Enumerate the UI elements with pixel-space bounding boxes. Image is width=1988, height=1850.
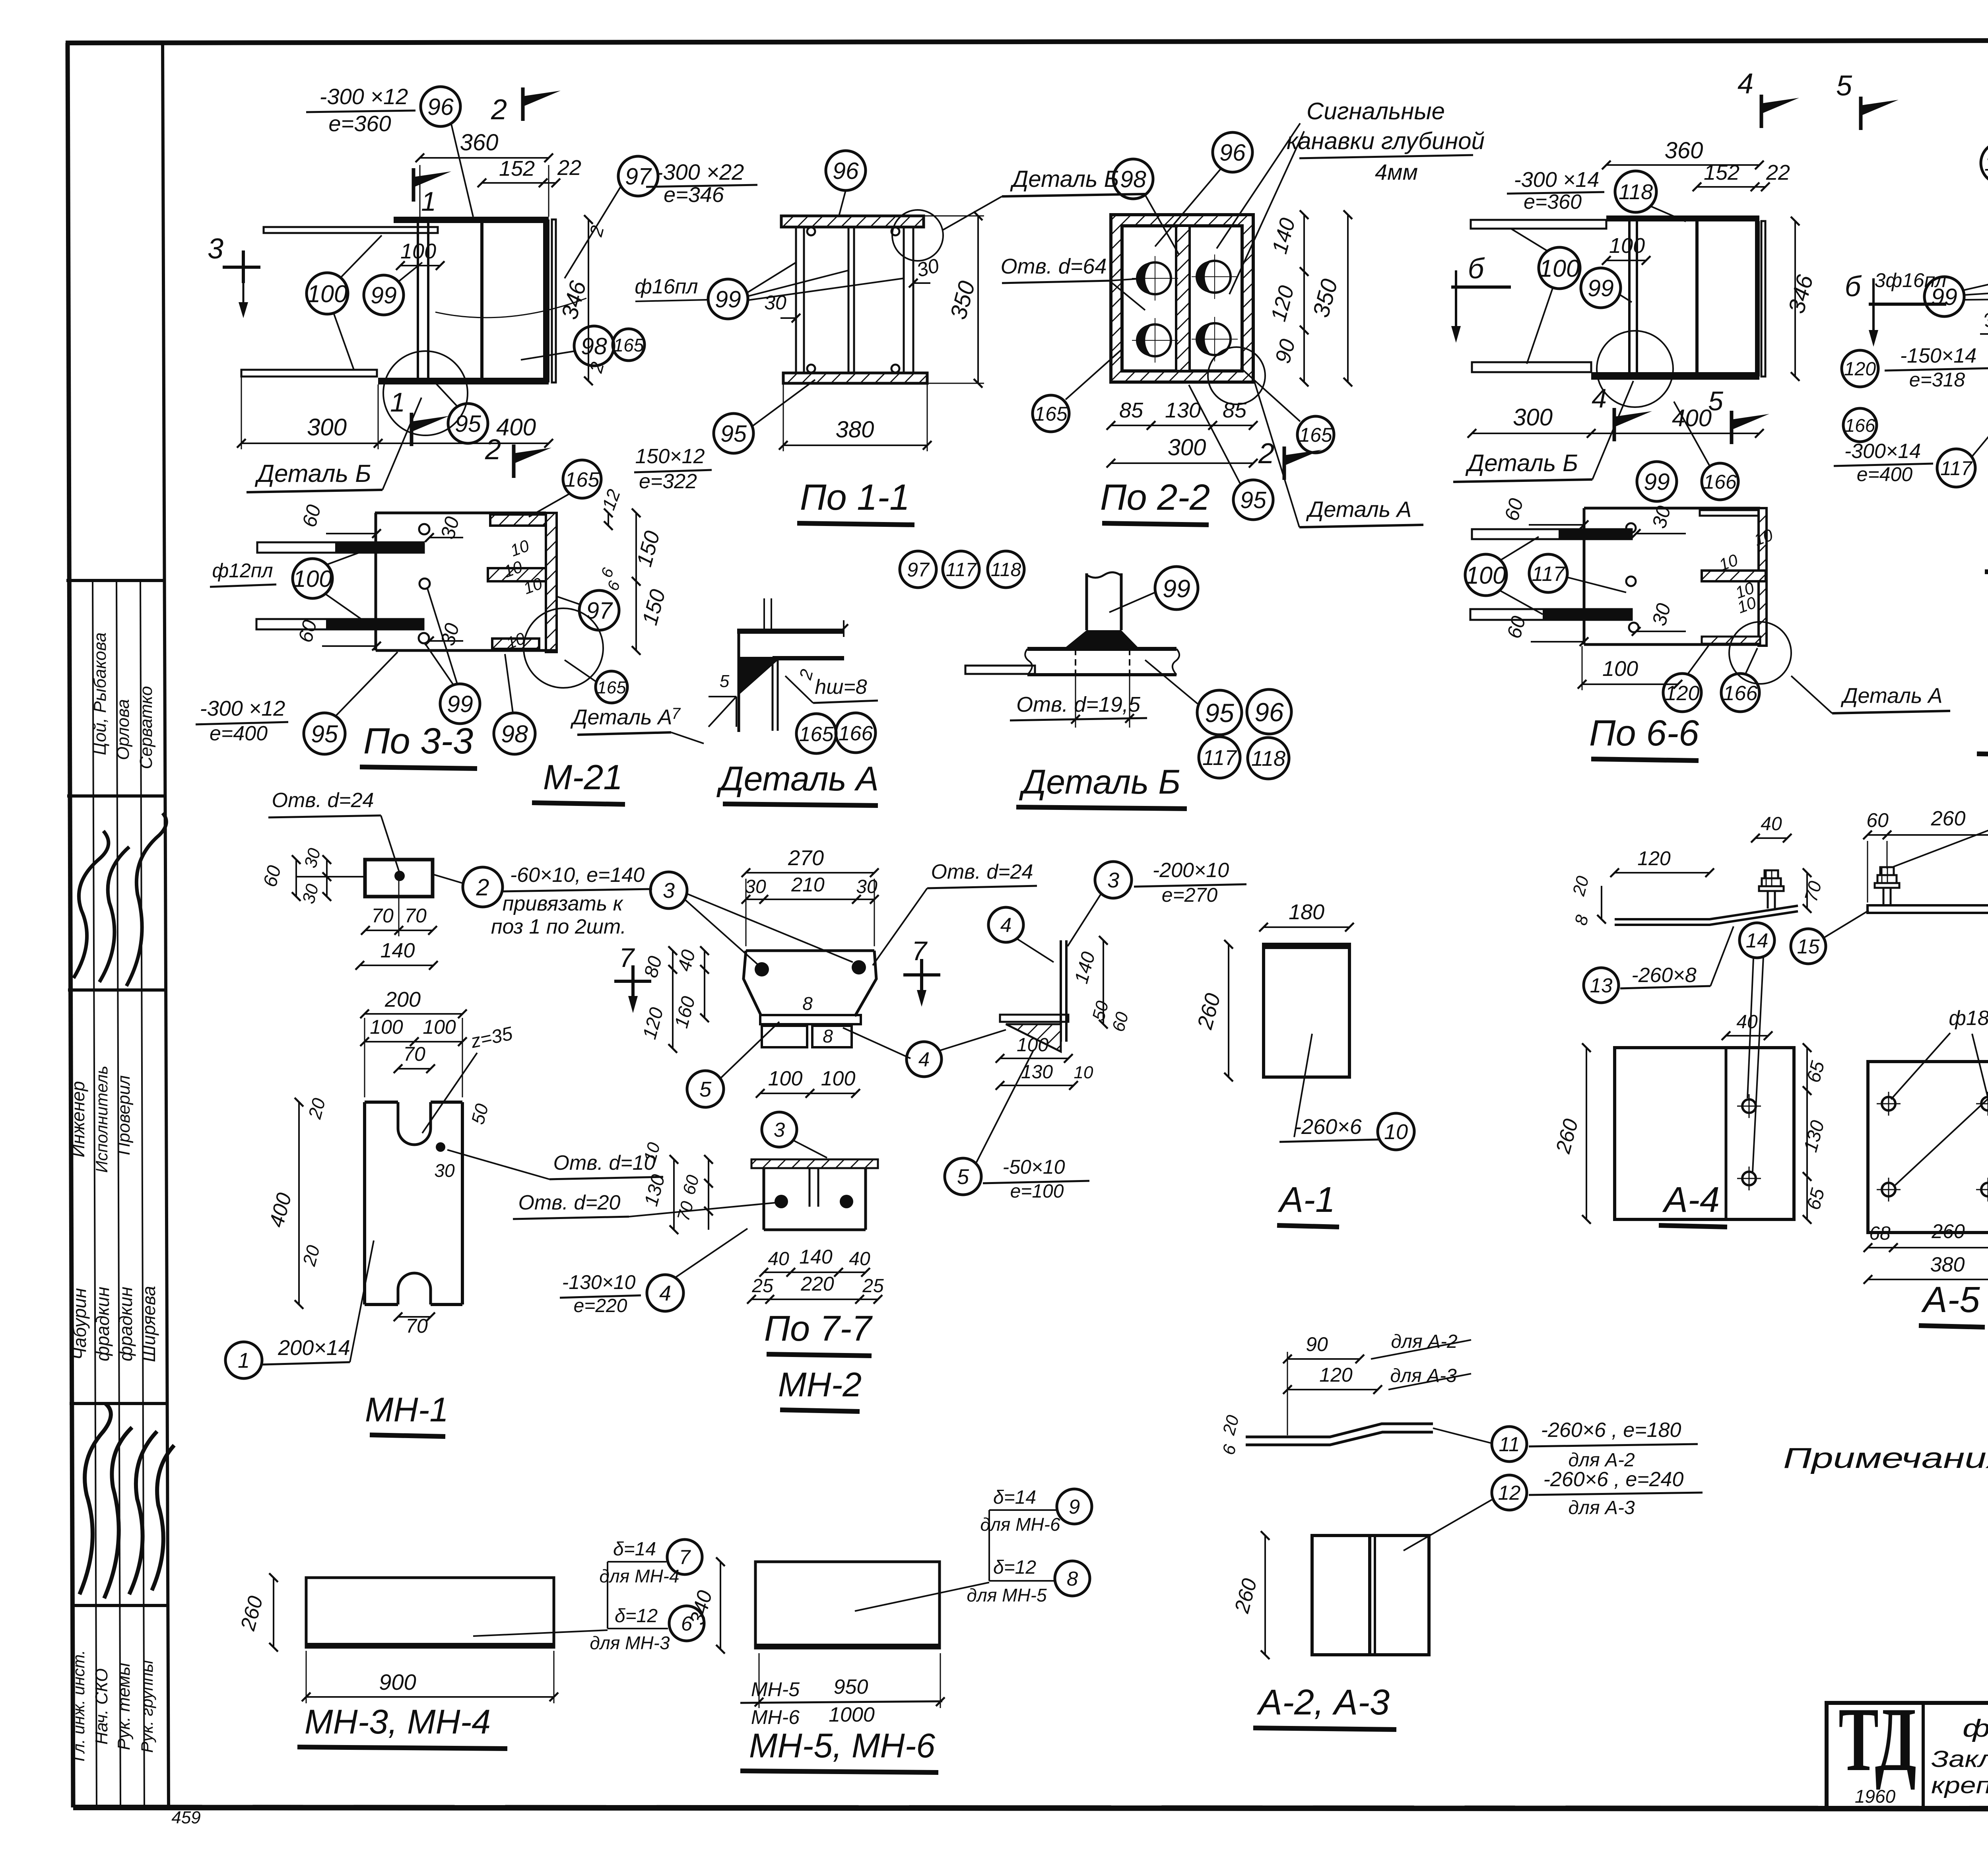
svg-text:10: 10 [1074, 1063, 1093, 1082]
svg-text:Отв. d=19,5: Отв. d=19,5 [1016, 693, 1141, 716]
svg-text:60: 60 [1866, 809, 1889, 831]
svg-text:95: 95 [1205, 698, 1234, 728]
svg-text:Орлова: Орлова [113, 699, 133, 760]
Po 1-1: right stud pair [903, 227, 905, 373]
svg-text:3: 3 [1107, 868, 1119, 892]
svg-text:для МН-3: для МН-3 [590, 1633, 670, 1653]
svg-text:5: 5 [957, 1165, 969, 1189]
svg-text:По 3-3: По 3-3 [363, 721, 473, 761]
svg-text:97: 97 [625, 163, 652, 190]
Po 3-3: detail circle [524, 608, 603, 688]
svg-text:165: 165 [1299, 424, 1332, 446]
svg-text:166: 166 [1703, 471, 1737, 493]
M-22 plan: corner detail circle [1597, 331, 1673, 407]
Po 7-7 inner rib [809, 1168, 811, 1207]
title strip column lines [93, 580, 97, 1807]
Po 3-3: anchor bar 2 [256, 619, 423, 629]
svg-text:Отв. d=24: Отв. d=24 [931, 860, 1033, 883]
svg-text:100: 100 [1466, 562, 1506, 589]
M-21 dim 360 [420, 157, 549, 159]
callout 165 top with 150x12 e=322 [563, 460, 601, 498]
svg-text:96: 96 [427, 94, 454, 120]
svg-text:100: 100 [370, 1016, 403, 1038]
section mark [410, 413, 414, 446]
callout 13 with label -260x8 [1584, 968, 1619, 1003]
M-22 plan: bolt bar [1629, 219, 1637, 379]
M-22 dim 346 [1794, 221, 1796, 377]
callout 95 [714, 413, 753, 453]
svg-text:привязать к: привязать к [503, 892, 624, 915]
M-21 plan: right plate 300x22 [543, 219, 549, 382]
svg-text:900: 900 [379, 1669, 416, 1695]
section mark [412, 168, 415, 202]
callout 166 [1721, 674, 1759, 712]
callout 98 [1113, 159, 1153, 199]
svg-text:e=400: e=400 [1857, 463, 1913, 485]
Po 6-6: left edge [1583, 508, 1586, 644]
Po 1-1: bolt heads [807, 227, 815, 235]
svg-text:фермы пролетом 30м.: фермы пролетом 30м. [1963, 1715, 1988, 1742]
title block frame [1827, 1703, 1988, 1808]
svg-text:30: 30 [745, 876, 766, 897]
Po 3-3: anchor bar 1 [257, 542, 424, 553]
title strip inner border [163, 44, 169, 1807]
M-22 plan: top plate [1606, 215, 1759, 221]
A-2/A-3 bent plate elevation [1246, 1424, 1433, 1437]
callout 100 [293, 559, 332, 598]
svg-text:11: 11 [1499, 1433, 1520, 1456]
svg-text:-60×10, e=140: -60×10, e=140 [510, 864, 645, 887]
A-4 bolt on plate [1767, 890, 1769, 908]
M-22 plan: top anchor [1471, 220, 1606, 229]
Po 3-3: bottom line [376, 649, 558, 652]
Po 6-6: top line [1584, 507, 1760, 510]
svg-text:7: 7 [679, 1546, 691, 1569]
callout 118 [1615, 171, 1656, 212]
callout 100 [307, 273, 348, 314]
A-5 bottom dims 60 260 60 380 [1868, 1247, 1988, 1248]
callout 165 right [1297, 416, 1334, 453]
callout 96 [1213, 132, 1252, 172]
svg-text:99: 99 [371, 282, 397, 309]
svg-text:А-1: А-1 [1277, 1180, 1335, 1220]
svg-text:165: 165 [565, 468, 600, 491]
Po 6-6: right web hatched [1759, 508, 1767, 646]
Po 6-6: bottom right notch hatched [1702, 637, 1760, 644]
svg-text:8: 8 [823, 1026, 833, 1046]
svg-text:-50×10: -50×10 [1002, 1156, 1065, 1178]
A-4 plan holes [1742, 1099, 1756, 1113]
svg-text:7: 7 [672, 705, 681, 722]
svg-text:25: 25 [751, 1275, 773, 1297]
callout 165 left [1033, 395, 1069, 432]
MN-1 plate outline [365, 1101, 398, 1104]
callout 3 with label -200x10 e=270 [1095, 862, 1132, 898]
svg-text:90: 90 [1306, 1333, 1328, 1355]
svg-text:для МН-6: для МН-6 [980, 1514, 1060, 1535]
MN-5/6 dim 340 [720, 1562, 721, 1649]
svg-text:Деталь А: Деталь А [1306, 497, 1411, 522]
svg-text:70: 70 [406, 1315, 428, 1337]
M-21 plan: bottom plate [378, 378, 549, 384]
svg-text:166: 166 [1723, 682, 1758, 705]
item 2 plate [365, 860, 433, 897]
svg-text:для А-3: для А-3 [1568, 1497, 1635, 1518]
Po 3-3: bolt circles [419, 524, 429, 534]
svg-text:99: 99 [1931, 284, 1957, 310]
Po 3-3 callouts 97 117 118 row [900, 551, 936, 588]
svg-text:95: 95 [311, 720, 338, 747]
svg-text:По 7-7: По 7-7 [764, 1309, 873, 1349]
Po 3-3: left edge [375, 513, 377, 650]
Po 2-2: holes with crescents [1139, 262, 1171, 294]
callout 118 [1981, 142, 1988, 184]
svg-text:950: 950 [834, 1675, 868, 1699]
svg-text:98: 98 [581, 333, 607, 359]
M-22 dims 152 22 [1697, 186, 1765, 188]
svg-text:-200×10: -200×10 [1153, 859, 1229, 882]
svg-text:δ=14: δ=14 [613, 1539, 656, 1560]
svg-text:δ=12: δ=12 [615, 1605, 658, 1627]
svg-text:130: 130 [1165, 398, 1201, 422]
svg-text:Отв. d=10: Отв. d=10 [553, 1151, 656, 1174]
anchor assembly A-5 bolts [1883, 887, 1885, 905]
svg-text:117: 117 [946, 559, 977, 580]
svg-text:200×14: 200×14 [278, 1336, 350, 1360]
svg-text:100: 100 [768, 1067, 803, 1090]
callout 3 MN-2 [650, 872, 687, 908]
svg-text:152: 152 [499, 157, 535, 181]
svg-text:А-5: А-5 [1921, 1279, 1980, 1320]
svg-text:Чабурин: Чабурин [69, 1288, 90, 1360]
Detail B: vertical rod [1085, 573, 1088, 630]
svg-text:1000: 1000 [829, 1703, 875, 1726]
Po 1-1: bottom flange hatched [783, 373, 927, 383]
callout 4 bracket top [988, 907, 1023, 942]
svg-text:3: 3 [663, 879, 675, 903]
svg-text:5: 5 [1836, 70, 1852, 102]
svg-text:Гл. инж. инст.: Гл. инж. инст. [69, 1650, 88, 1761]
Po 2-2 right dims 140 120 90 350 [1303, 215, 1305, 382]
svg-text:Закладные элементы М-21, М-: Закладные элементы М-21, М-22 и [1931, 1746, 1988, 1772]
Po 6-6: anchor bar 2 [1470, 609, 1632, 620]
svg-text:100: 100 [400, 239, 436, 263]
M-21 plan: inner arc [435, 298, 586, 318]
svg-text:14: 14 [1746, 929, 1769, 952]
callout 99 [364, 275, 404, 315]
callout 99 [708, 279, 748, 319]
callout 166 [836, 713, 876, 753]
svg-text:300: 300 [1513, 404, 1553, 431]
callout 100 [1539, 247, 1580, 289]
svg-text:85: 85 [1119, 398, 1143, 422]
MN-1 hole [436, 1142, 445, 1152]
svg-text:100: 100 [1602, 657, 1638, 681]
svg-text:13: 13 [1590, 974, 1613, 997]
svg-text:2: 2 [476, 874, 489, 901]
svg-text:100: 100 [423, 1016, 456, 1038]
MN-3/4 dim 260 [273, 1578, 274, 1647]
svg-text:100: 100 [1609, 234, 1645, 258]
svg-text:ф16пл: ф16пл [635, 275, 698, 298]
callout 120 [1663, 674, 1701, 712]
Po 6-6: detail circle [1729, 622, 1791, 684]
Po 3-3: right web hatched [546, 513, 557, 652]
Po 7-7 channel body [763, 1168, 765, 1230]
item 2 hole [394, 871, 405, 881]
svg-text:117: 117 [1940, 457, 1973, 479]
MN-5 MN-6 plate [755, 1562, 940, 1648]
svg-text:400: 400 [496, 414, 536, 441]
A-1 dim 180 [1264, 926, 1349, 928]
svg-text:300: 300 [1168, 435, 1206, 460]
svg-text:300: 300 [307, 414, 347, 441]
M-21 dims 300 400 bottom [241, 443, 549, 444]
svg-text:95: 95 [720, 421, 747, 447]
svg-text:99: 99 [715, 286, 741, 313]
svg-text:22: 22 [1766, 161, 1790, 184]
svg-text:1: 1 [390, 387, 405, 417]
svg-text:крепежные детали МН-1÷МН-6,: крепежные детали МН-1÷МН-6, А-1÷А-6. [1931, 1772, 1988, 1798]
svg-text:Инженер: Инженер [68, 1081, 88, 1157]
svg-text:165: 165 [799, 723, 834, 746]
svg-text:4: 4 [659, 1281, 671, 1305]
svg-text:152: 152 [1704, 161, 1739, 184]
svg-text:Деталь А: Деталь А [1840, 684, 1942, 708]
svg-text:ф12пл: ф12пл [212, 559, 273, 582]
Po 1-1: left stud pair [795, 227, 797, 373]
svg-text:5: 5 [1708, 386, 1723, 416]
svg-text:δ=12: δ=12 [993, 1557, 1036, 1578]
svg-text:180: 180 [1289, 900, 1324, 924]
svg-text:поз 1 по 2шт.: поз 1 по 2шт. [491, 915, 626, 938]
MN-3/4 dim 900 [306, 1696, 554, 1698]
Po 2-2: outer hatched square [1111, 215, 1253, 382]
svg-text:4: 4 [1592, 383, 1607, 413]
callout 97 [579, 590, 619, 630]
M-22 dims 300 400 [1472, 433, 1759, 434]
MN-2 bottom dims 100 100 [760, 1093, 856, 1094]
svg-text:Отв. d=20: Отв. d=20 [518, 1191, 621, 1214]
svg-text:118: 118 [991, 559, 1021, 580]
svg-text:8: 8 [802, 993, 813, 1014]
svg-text:б: б [1468, 253, 1485, 285]
svg-text:hш=8: hш=8 [815, 676, 867, 699]
MN-2 holes [755, 962, 769, 976]
svg-text:МН-5: МН-5 [751, 1678, 800, 1701]
svg-text:4: 4 [918, 1048, 930, 1071]
svg-text:100: 100 [1539, 255, 1580, 282]
svg-text:1960: 1960 [1855, 1786, 1896, 1807]
svg-text:165: 165 [613, 335, 644, 355]
svg-text:96: 96 [1219, 140, 1246, 166]
Po 1-1: top flange hatched [781, 216, 924, 227]
svg-text:99: 99 [1588, 275, 1614, 301]
svg-text:Проверил: Проверил [114, 1075, 134, 1155]
svg-text:40: 40 [1761, 813, 1782, 835]
callout 99 bottom [1637, 462, 1677, 501]
Po 2-2: detail circle [1208, 347, 1265, 404]
svg-text:e=270: e=270 [1162, 884, 1218, 906]
svg-text:-300 ×14: -300 ×14 [1514, 168, 1600, 192]
M-22 dim 100 [1606, 260, 1646, 261]
section mark [512, 445, 516, 478]
callout 99 [440, 684, 480, 724]
svg-text:97: 97 [907, 559, 930, 581]
Po 1-1 dim 350 [977, 216, 979, 383]
title strip section dividers [66, 579, 164, 582]
M-21 plan: bottom anchor plate [241, 370, 377, 377]
sheet border bottom [73, 1807, 1988, 1809]
svg-text:97: 97 [586, 598, 613, 624]
svg-text:Рук. темы: Рук. темы [114, 1663, 134, 1750]
svg-text:118: 118 [1619, 180, 1653, 204]
svg-text:100: 100 [821, 1067, 856, 1090]
Po 2-2 bottom dims 85 130 85 300 [1111, 425, 1253, 426]
Po 6-6: bottom line [1584, 643, 1760, 646]
Po 1-1: middle stud pair [848, 227, 850, 373]
Po 7-7 dims bottom 40 140 40 25 220 25 [764, 1272, 866, 1273]
svg-text:30: 30 [434, 1160, 455, 1181]
svg-text:2: 2 [491, 94, 507, 126]
Po 6-6 dim 100 [1582, 683, 1678, 685]
callout 165 [796, 714, 836, 753]
Po 7-7 channel top flange hatched [751, 1159, 878, 1168]
svg-text:фрадкин: фрадкин [92, 1287, 113, 1361]
svg-text:99: 99 [1163, 575, 1190, 603]
svg-text:По 1-1: По 1-1 [800, 477, 910, 518]
svg-text:Ширяева: Ширяева [138, 1286, 159, 1362]
svg-text:165: 165 [597, 678, 626, 697]
M-21 plan: top plate 300x12 [394, 217, 549, 223]
callout 120 with label -150x14 e=318 [1842, 350, 1878, 387]
svg-text:7: 7 [912, 936, 928, 966]
M-22 dim 360 [1606, 164, 1759, 166]
svg-text:25: 25 [862, 1275, 884, 1297]
svg-text:98: 98 [1120, 166, 1146, 192]
Detail B: weld flare fill [1066, 630, 1138, 647]
assembly A-5 dims 60 260 60 [1868, 834, 1988, 836]
Po 2-2: middle hatched rib [1176, 226, 1190, 371]
svg-text:Нач. СКО: Нач. СКО [92, 1668, 111, 1745]
svg-text:Деталь Б: Деталь Б [254, 460, 371, 487]
svg-text:1: 1 [238, 1349, 250, 1372]
svg-text:МН-1: МН-1 [365, 1391, 448, 1429]
svg-text:118: 118 [1251, 747, 1285, 771]
svg-text:100: 100 [307, 280, 348, 307]
strip signatures block 2 [80, 1404, 174, 1598]
svg-text:95: 95 [455, 411, 481, 437]
callout 1 with 200x14 [225, 1342, 262, 1378]
MN-2 elevation outline [746, 949, 874, 952]
svg-text:260: 260 [1931, 1220, 1965, 1242]
callouts 95 96 117 118 [1197, 690, 1242, 735]
M-22 plan: right plate [1755, 221, 1760, 377]
Po 1-1 dim 380 [783, 445, 927, 446]
callout 95 [1233, 480, 1273, 520]
svg-text:-300 ×22: -300 ×22 [656, 159, 744, 184]
svg-text:-300 ×12: -300 ×12 [200, 697, 285, 720]
M-21 dim 152 / 22 [482, 182, 556, 184]
svg-text:150×12: 150×12 [635, 445, 705, 468]
callout 100 [1465, 554, 1507, 596]
svg-text:22: 22 [557, 156, 581, 180]
svg-text:120: 120 [1665, 682, 1700, 705]
svg-text:3: 3 [208, 233, 223, 265]
M-21 plan: bolt bar [418, 221, 428, 380]
Po 7-7 holes [775, 1195, 788, 1208]
M-22 plan: bottom plate [1591, 372, 1759, 380]
svg-text:Деталь А: Деталь А [570, 705, 672, 729]
section mark [1283, 446, 1286, 480]
strip signatures block 1 [74, 813, 166, 986]
svg-text:Серватко: Серватко [136, 686, 156, 769]
angle bracket item 3-4-5 [1060, 940, 1062, 1042]
svg-text:5: 5 [699, 1077, 712, 1101]
svg-text:140: 140 [381, 939, 415, 962]
svg-text:4: 4 [1738, 68, 1753, 100]
svg-text:для МН-5: для МН-5 [967, 1585, 1047, 1605]
svg-text:1: 1 [421, 186, 436, 217]
Detail A: left edge [738, 630, 740, 732]
Po 3-3: middle flange hatched [488, 568, 546, 581]
callout 99 [1155, 567, 1198, 610]
M-22 plan: inner line [1695, 221, 1699, 372]
svg-text:По 6-6: По 6-6 [1589, 713, 1699, 753]
svg-text:e=400: e=400 [210, 722, 268, 745]
svg-text:По 2-2: По 2-2 [1100, 477, 1210, 518]
callout 5 with label -50x10 e=100 [945, 1158, 981, 1195]
svg-text:120: 120 [1844, 359, 1876, 380]
Po 6-6: bolt circles [1626, 523, 1636, 533]
svg-text:140: 140 [799, 1246, 833, 1268]
svg-text:70: 70 [371, 905, 394, 927]
MN-1 dims top [365, 1013, 462, 1015]
svg-text:Деталь А: Деталь А [716, 760, 879, 798]
svg-text:40: 40 [1736, 1011, 1758, 1033]
MN-2 bottom flange [760, 1015, 861, 1024]
callout 99 [1924, 277, 1964, 316]
svg-text:4мм: 4мм [1375, 159, 1418, 184]
svg-text:А-4: А-4 [1662, 1180, 1720, 1220]
svg-text:95: 95 [1240, 487, 1266, 513]
M-21 plan: top anchor plate [264, 227, 438, 233]
svg-text:Цой, Рыбакова: Цой, Рыбакова [90, 632, 110, 755]
svg-text:360: 360 [1665, 138, 1703, 163]
svg-text:канавки глубиной: канавки глубиной [1287, 128, 1485, 154]
svg-text:-260×6: -260×6 [1294, 1115, 1362, 1139]
svg-text:5: 5 [720, 672, 730, 691]
MN-1 bottom U notch [398, 1273, 431, 1305]
section mark [1730, 411, 1734, 444]
M-21 dim 100 [400, 265, 440, 266]
Po 6-6: middle flange hatched [1702, 571, 1766, 581]
svg-text:96: 96 [1254, 697, 1284, 727]
svg-text:ТД: ТД [1839, 1689, 1916, 1790]
svg-text:360: 360 [460, 130, 499, 155]
callout 96 [421, 87, 460, 126]
callout 98 [574, 326, 614, 366]
svg-text:260: 260 [1931, 807, 1966, 830]
Detail B: left anchor bar [965, 666, 1035, 674]
svg-text:Отв. d=24: Отв. d=24 [272, 789, 374, 812]
A-4 plan dims [1726, 1035, 1768, 1037]
anchor assembly for A-5: base plate [1868, 905, 1988, 913]
callout 165 [613, 329, 645, 361]
svg-text:Деталь Б: Деталь Б [1465, 450, 1578, 476]
svg-text:-300 ×12: -300 ×12 [320, 84, 408, 109]
M-22 plan: bottom anchor [1472, 362, 1591, 372]
